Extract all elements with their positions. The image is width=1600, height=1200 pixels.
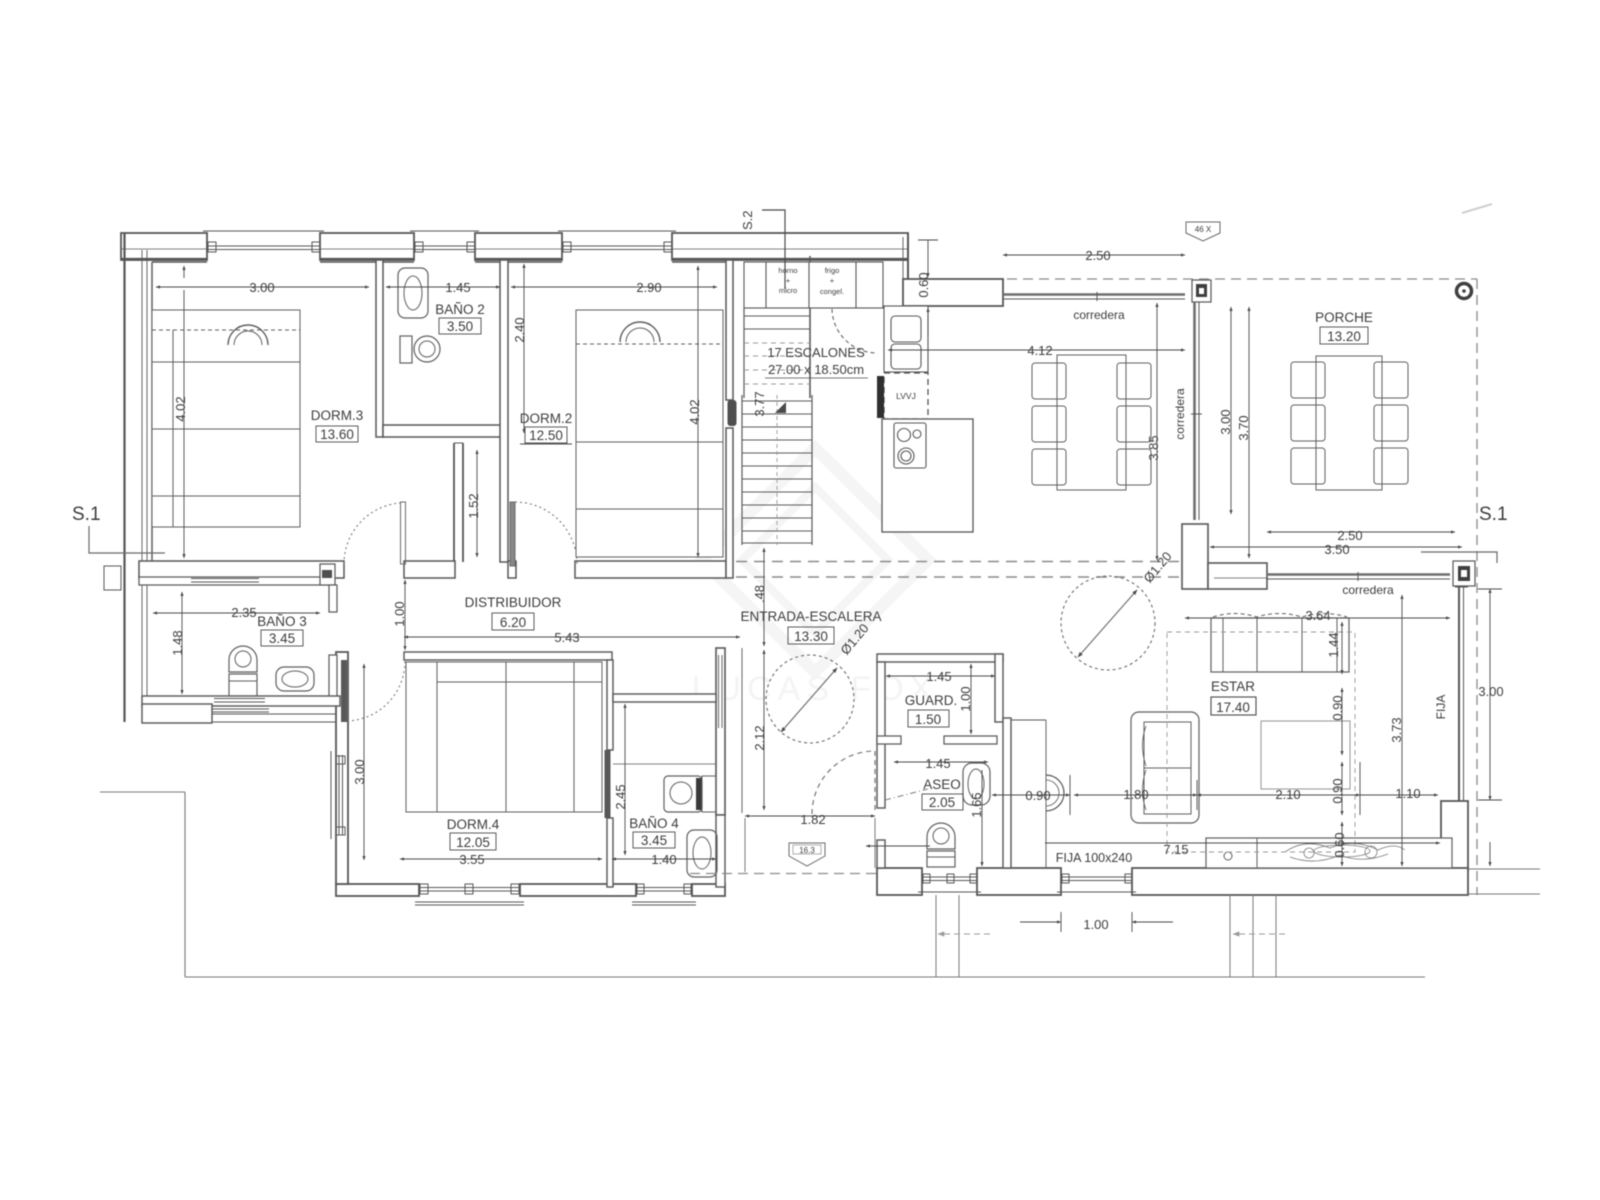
dorm3 south wall (139, 561, 344, 578)
bano4 door leaf (605, 750, 611, 818)
dim 0.90 vertical b (1341, 762, 1343, 815)
dim 1.45 guard (886, 675, 995, 677)
bano4 vanity counter line (613, 763, 716, 765)
svg-text:12.50: 12.50 (529, 428, 563, 443)
svg-text:PORCHE: PORCHE (1315, 310, 1373, 325)
aseo door dash-dot (885, 789, 928, 800)
window W-dorm4 (331, 751, 345, 839)
guard east wall (995, 654, 1003, 722)
tv bench (1206, 838, 1452, 868)
stairwell right wall (809, 256, 811, 398)
dim 3.73 vertical (1401, 595, 1403, 866)
bano3 north wall (139, 577, 330, 585)
dim 3.77 stairs tick (775, 402, 786, 413)
window S-aseo (918, 874, 981, 892)
stair center dashed line (776, 395, 778, 545)
S.2 top (740, 210, 785, 289)
kitchen door dashed arc (832, 309, 876, 353)
estar turning circle (1061, 576, 1155, 670)
entrada west wall with window (716, 648, 742, 815)
svg-text:DORM.2: DORM.2 (520, 411, 573, 426)
porch dining table (1316, 356, 1382, 490)
label estar (1211, 679, 1256, 715)
corredera sliding door north (1003, 292, 1185, 301)
svg-text:27.00 x 18.50cm: 27.00 x 18.50cm (768, 362, 864, 377)
svg-text:3.50: 3.50 (447, 319, 473, 334)
rug dashed estar (1167, 632, 1355, 852)
dim 7.15 (1045, 842, 1440, 844)
hall south / dorm4 north wall (404, 652, 612, 660)
svg-text:1.10: 1.10 (1395, 786, 1420, 801)
porch step columns estar (1230, 895, 1276, 977)
label aseo (922, 777, 963, 810)
horno micro text (778, 266, 797, 295)
svg-text:4.02: 4.02 (173, 396, 188, 421)
dim 0.60 vertical c (1341, 822, 1343, 866)
SE corner wall (1441, 801, 1468, 871)
coffee table (1261, 721, 1350, 789)
top right smudge (1462, 204, 1492, 213)
dim 1.65 aseo vertical (981, 770, 983, 866)
dim 1.52 closet vertical (476, 450, 478, 557)
plot lines east (1468, 869, 1540, 894)
svg-text:3.50: 3.50 (1324, 542, 1349, 557)
window N2 (410, 231, 479, 252)
svg-text:3.70: 3.70 (1236, 415, 1251, 440)
svg-text:6.20: 6.20 (500, 615, 526, 630)
window S-bano4 (632, 884, 696, 905)
svg-text:corredera: corredera (1342, 583, 1394, 597)
bano3 sink (276, 667, 314, 691)
svg-text:corredera: corredera (1173, 388, 1187, 440)
dim 3.00 fija vertical (1478, 589, 1502, 866)
corredera sliding door east of kitchen (1191, 302, 1202, 520)
svg-text:0.90: 0.90 (1025, 788, 1050, 803)
dorm3 bed (152, 310, 300, 527)
dim 1.00 guard vertical (970, 664, 972, 734)
dim 0.90 vertical a (1341, 688, 1343, 755)
svg-text:FIJA: FIJA (1434, 695, 1448, 720)
svg-text:1.52: 1.52 (466, 493, 481, 518)
svg-text:+: + (830, 276, 835, 285)
dim 2.45 bano4 vertical (624, 704, 626, 855)
bano4 washbasin (664, 776, 716, 812)
dim 1.48 bano3 vertical (181, 592, 183, 694)
svg-text:frigo: frigo (825, 266, 840, 275)
dim 1.44 vertical (1341, 622, 1343, 674)
dim chain 0.90 aseo (992, 794, 1070, 796)
bano2 bathtub (398, 268, 428, 318)
upper floor projection dashed lines (736, 562, 1182, 578)
bano4 east wall (716, 815, 725, 887)
svg-text:1.48: 1.48 (170, 630, 185, 655)
dim 3.00 porch-col vertical (1230, 307, 1232, 514)
svg-text:DORM.4: DORM.4 (447, 817, 500, 832)
dim chain 1.80 (1070, 775, 1197, 815)
guard/aseo west wall (877, 662, 885, 868)
north wall segment 3 (475, 233, 562, 260)
guard north wall (877, 654, 1003, 662)
dim chain 2.10 (1197, 762, 1360, 815)
north wall segment 2 (320, 233, 414, 260)
porch drain marker (1457, 284, 1472, 299)
armchair (1131, 712, 1199, 823)
svg-text:0.60: 0.60 (916, 272, 931, 297)
svg-text:3.00: 3.00 (1218, 409, 1233, 434)
svg-text:1.65: 1.65 (969, 792, 984, 817)
svg-text:1.00: 1.00 (1083, 917, 1108, 932)
dim .48 entrada vertical (763, 548, 765, 646)
dim 3.64 sofa (1185, 617, 1450, 619)
label dorm3 (311, 408, 364, 442)
dim 2.35 bano3 (153, 612, 320, 614)
bano3 toilet (229, 646, 257, 696)
guard/aseo divider (877, 736, 997, 744)
dining chairs interior left (1032, 363, 1066, 485)
porch chairs left (1291, 362, 1325, 484)
dorm3 door leaf (401, 502, 406, 564)
dim 5.43 hall (404, 636, 740, 638)
window N1 (203, 231, 324, 252)
svg-text:3.55: 3.55 (459, 852, 484, 867)
aseo toilet (927, 823, 955, 867)
canopy dashed over entrance (690, 873, 877, 875)
L wall corner living room (1182, 524, 1267, 589)
porch pillar SW (1453, 561, 1475, 586)
dining table interior (1057, 355, 1126, 490)
svg-text:micro: micro (779, 286, 797, 295)
svg-text:13.30: 13.30 (794, 629, 828, 644)
svg-text:BAÑO 2: BAÑO 2 (435, 302, 485, 317)
svg-text:DISTRIBUIDOR: DISTRIBUIDOR (465, 595, 562, 610)
watermark (692, 448, 939, 708)
svg-text:3.77: 3.77 (752, 391, 767, 416)
svg-text:1.00: 1.00 (392, 601, 407, 626)
svg-text:3.73: 3.73 (1389, 717, 1404, 742)
svg-text:2.45: 2.45 (613, 784, 628, 809)
dim 3.85 vertical (1156, 303, 1158, 560)
svg-text:1.44: 1.44 (1326, 632, 1341, 657)
pivot door semicircle (1046, 775, 1064, 811)
sw corner chunk (142, 704, 336, 723)
svg-text:5.43: 5.43 (554, 630, 579, 645)
svg-text:FIJA 100x240: FIJA 100x240 (1056, 851, 1132, 865)
dim 2.50 estar top (1267, 531, 1455, 533)
svg-text:0.90: 0.90 (1330, 778, 1345, 803)
dim 1.40 bano4 (612, 858, 716, 860)
svg-text:S.2: S.2 (740, 210, 755, 230)
porch chairs right (1374, 362, 1408, 484)
S.1 right (1421, 504, 1508, 563)
west pilaster (104, 566, 121, 590)
svg-text:BAÑO 4: BAÑO 4 (629, 816, 679, 831)
svg-text:4.02: 4.02 (687, 399, 702, 424)
svg-text:2.40: 2.40 (512, 317, 527, 342)
bano4 north wall (613, 694, 716, 702)
svg-text:13.60: 13.60 (320, 427, 354, 442)
bano3 south wall with window (142, 696, 340, 712)
bano2 west wall (376, 260, 383, 437)
svg-text:2.50: 2.50 (1337, 528, 1362, 543)
svg-text:13.20: 13.20 (1327, 329, 1361, 344)
dim 3.55 dorm4 (400, 858, 602, 860)
dim 4.12 kitchen (888, 349, 1185, 351)
label entrada-escalera (740, 609, 881, 644)
dorm2 south wall west stub (508, 561, 516, 578)
sofa (1211, 614, 1349, 673)
dashed arrow left steps (938, 933, 990, 935)
svg-text:3.00: 3.00 (249, 280, 274, 295)
bano2 toilet (400, 336, 440, 363)
lower flight (742, 395, 812, 545)
svg-text:7.15: 7.15 (1163, 842, 1188, 857)
label guard (905, 693, 958, 727)
aseo east wall (1003, 718, 1011, 868)
bano3 east wall (320, 564, 337, 704)
svg-text:2.12: 2.12 (752, 725, 767, 750)
north wall inner edge emphasis (121, 258, 908, 260)
dim 1.82 entrance (745, 815, 875, 817)
label dorm2 (520, 411, 573, 444)
bano2 south wall (383, 425, 503, 437)
flag 16.3 entrance (789, 843, 825, 866)
svg-text:LVVJ: LVVJ (896, 391, 916, 401)
porch roof dashed east (1476, 279, 1478, 895)
svg-text:S.1: S.1 (72, 504, 101, 525)
bano3 west wall inner lines (142, 585, 147, 696)
entrance door arc (812, 751, 875, 814)
closet west wall (454, 443, 463, 562)
dining chairs interior right (1117, 363, 1151, 485)
svg-text:.48: .48 (752, 585, 767, 603)
svg-text:+: + (786, 276, 791, 285)
dorm2 bed (576, 310, 723, 557)
porch pillar NW (1192, 280, 1211, 302)
label distribuidor (465, 595, 562, 630)
cooktop (894, 423, 926, 468)
dim arrow aseo toilet (866, 845, 930, 847)
kitchen island (882, 419, 973, 532)
dim 2.12 entrada vertical (763, 650, 765, 810)
upper flight treads (744, 262, 810, 329)
svg-text:corredera: corredera (1073, 308, 1125, 322)
dim 2.40 bano2 vertical (523, 264, 525, 433)
upper flight dashed treads (744, 343, 810, 384)
dim 2.50 corredera (1003, 254, 1185, 256)
window N3 (558, 231, 676, 252)
dorm2 door arc (515, 502, 577, 564)
svg-text:ASEO: ASEO (923, 777, 961, 792)
dim 1.45 bano2 (386, 286, 500, 288)
svg-text:3.45: 3.45 (641, 833, 667, 848)
svg-text:46 X: 46 X (1195, 225, 1212, 234)
svg-text:1.82: 1.82 (800, 812, 825, 827)
dim 3.70 porch vertical (1248, 307, 1250, 558)
dorm2 east wall (726, 260, 733, 578)
dim 3.00 dorm4 vertical (363, 664, 365, 860)
svg-text:1.80: 1.80 (1123, 787, 1148, 802)
svg-text:3.00: 3.00 (352, 759, 367, 784)
svg-text:2.35: 2.35 (231, 605, 256, 620)
plot boundary left (100, 792, 1425, 977)
label dorm4 (447, 817, 500, 850)
svg-text:1.00: 1.00 (958, 686, 973, 711)
S.1 left (72, 504, 165, 553)
dim 1.45 aseo (894, 761, 988, 763)
svg-text:2.10: 2.10 (1275, 787, 1300, 802)
svg-text:12.05: 12.05 (456, 835, 490, 850)
dorm4 door leaf (341, 660, 347, 722)
frigo congel text (820, 266, 844, 296)
dim 4.02 dorm3 vertical (183, 290, 185, 558)
svg-text:1.45: 1.45 (925, 756, 950, 771)
svg-text:17 ESCALONES: 17 ESCALONES (767, 345, 865, 360)
window S-salon (1057, 874, 1136, 892)
dorm4/bano4 divider wall (607, 660, 613, 887)
label escalones (765, 345, 868, 378)
dorm3 door arc (344, 503, 400, 564)
svg-text:2.50: 2.50 (1085, 248, 1110, 263)
dorm2 south wall (575, 561, 726, 578)
west wall (125, 233, 727, 722)
dorm4 bed wardrobe (406, 662, 602, 812)
svg-text:2.90: 2.90 (636, 280, 661, 295)
entrance door leaf dashed (874, 751, 876, 814)
west wall dorm4 block (336, 652, 348, 884)
fridge cabinets row (744, 262, 883, 308)
svg-text:17.40: 17.40 (1216, 700, 1250, 715)
dashed arrow right steps (1233, 933, 1285, 935)
label bano4 (629, 816, 679, 848)
svg-text:0.90: 0.90 (1330, 695, 1345, 720)
svg-text:4.12: 4.12 (1027, 343, 1052, 358)
svg-text:1.45: 1.45 (445, 280, 470, 295)
svg-text:1.50: 1.50 (915, 712, 941, 727)
svg-text:DORM.3: DORM.3 (311, 408, 364, 423)
north wall segment 4 (672, 233, 908, 260)
svg-text:congel.: congel. (820, 287, 844, 296)
hall niche thin wall (1011, 720, 1046, 868)
svg-text:GUARD.: GUARD. (905, 693, 958, 708)
bano4 bathtub (687, 830, 717, 877)
svg-text:3.64: 3.64 (1305, 608, 1330, 623)
dim 2.90 dorm2 (511, 286, 717, 288)
dim chain 1.10 (1360, 794, 1438, 796)
svg-text:S.1: S.1 (1479, 504, 1508, 525)
flag 46X porch (1186, 222, 1220, 241)
hall north wall stub (404, 561, 455, 578)
dorm4 door arc (347, 661, 405, 721)
svg-text:3.85: 3.85 (1146, 435, 1161, 460)
dim 3.50 estar top (1210, 546, 1462, 548)
svg-text:horno: horno (778, 266, 797, 275)
bano2/closet east wall (500, 260, 508, 562)
entrance recess jambs (745, 818, 875, 872)
dim 0.60 kitchen step (918, 240, 938, 336)
window S-dorm4 (415, 884, 524, 905)
porch step columns aseo (936, 895, 959, 977)
corredera sliding door estar south (1267, 572, 1450, 581)
svg-text:1.45: 1.45 (926, 669, 951, 684)
dorm2 door radiator leaf (728, 400, 737, 426)
north wall segment 1 (121, 233, 207, 260)
svg-text:3.45: 3.45 (269, 631, 295, 646)
svg-text:2.05: 2.05 (929, 795, 955, 810)
svg-text:3.00: 3.00 (1478, 684, 1503, 699)
svg-text:0.60: 0.60 (1332, 832, 1347, 857)
aseo sink (963, 763, 990, 805)
kitchen north step wall (903, 233, 1003, 306)
dim 3.00 dorm3 (156, 266, 369, 287)
label bano2 (435, 302, 485, 334)
dim 4.02 dorm2 vertical (697, 266, 699, 557)
label bano3 (257, 614, 307, 646)
dim 1.00 hall vertical (404, 580, 406, 650)
svg-text:16.3: 16.3 (799, 846, 815, 855)
svg-text:ESTAR: ESTAR (1211, 679, 1255, 694)
entrada turning circle (766, 655, 854, 743)
plant on bench (1285, 843, 1405, 861)
south wall estar/aseo segments (877, 868, 1468, 895)
south wall dorm4 block (336, 884, 725, 896)
window FIJA east (1455, 587, 1468, 801)
label porche (1315, 310, 1373, 344)
svg-text:1.40: 1.40 (651, 852, 676, 867)
svg-text:BAÑO 3: BAÑO 3 (257, 614, 307, 629)
sink counter (884, 306, 928, 372)
dorm2 door leaf (510, 502, 515, 566)
porch roof dashed north (1007, 278, 1477, 280)
LVVJ dishwasher (877, 373, 928, 419)
dim 1.00 south window (1020, 912, 1173, 932)
